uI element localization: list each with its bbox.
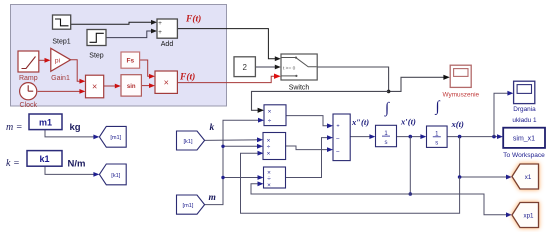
svg-text:×: × [267,151,271,158]
svg-text:x1: x1 [525,174,532,181]
svg-text:m1: m1 [39,117,52,127]
block Ramp [18,51,39,72]
block m1 constant [29,114,62,130]
block Wymuszenie scope [450,65,471,87]
wire Clock to Product1 input 2 [38,90,80,92]
svg-text:+: + [336,124,339,130]
wire Product2 F(t) to Switch input 3 [178,76,275,82]
block Clock [20,83,37,100]
block Integrator2 [427,126,448,147]
wire Product1 to sin [104,85,116,87]
svg-text:×: × [268,108,272,115]
from tag [m1] [177,195,205,214]
svg-text:Clock: Clock [20,102,38,109]
wire Add to Switch input 1 [177,29,275,59]
svg-text:[m1]: [m1] [110,135,121,141]
junction dot x' feedback [409,192,413,196]
svg-text:Step: Step [89,53,104,60]
block k1 constant [27,151,62,167]
wire From [k1] to Divide2 input 1 (k) [205,139,258,142]
from tag [k1] [177,131,205,150]
svg-text:Ramp: Ramp [19,75,38,82]
block Step [87,30,106,46]
svg-text:x′(t): x′(t) [400,116,416,126]
wire Integrator2 to sim_x1 x(t) [447,136,497,138]
svg-text:Fs: Fs [127,58,135,65]
wire junction to Wymuszenie scope [389,77,444,91]
svg-text:x(t): x(t) [451,119,465,129]
wire x feedback to Divide2 input 3 [241,153,460,213]
block Drgania scope [514,81,535,103]
block Divide2 (k x / m) [263,133,286,160]
block Constant 2 [234,57,255,77]
svg-text:To Workspace: To Workspace [503,152,545,159]
block Product2 [155,71,177,93]
svg-text:xp1: xp1 [524,213,535,220]
block Gain1 [51,48,71,71]
junction dot x for outport [458,135,462,139]
svg-text:Gain1: Gain1 [51,75,70,82]
svg-text:×: × [164,77,169,87]
svg-text:k =: k = [6,158,20,169]
svg-text:Drgania: Drgania [513,106,536,113]
svg-text:×: × [267,182,271,189]
junction dot m line upper [221,145,224,148]
wire x' feedback to Divide3 input 3 [251,184,410,194]
svg-text:t >= 0: t >= 0 [283,65,296,71]
svg-text:+: + [158,29,162,36]
svg-text:sim_x1: sim_x1 [513,136,535,143]
svg-text:−: − [336,148,340,155]
svg-text:+: + [158,20,162,27]
block sin [121,75,141,96]
junction dot x for scope [492,135,496,139]
wire k1 box to Goto [k1] [45,166,95,174]
wire Gain1 to Product1 input 1 [71,60,80,81]
svg-text:m =: m = [6,122,22,133]
wire Sum output to Integrator1 [350,136,370,138]
wire Divide1 output to Sum input 1 [286,116,328,126]
wire m branch to Divide2 input 2 [223,145,258,147]
wire Divide2 output to Sum input 3 [286,146,328,150]
junction dot F line [387,90,391,94]
svg-text:s: s [435,141,438,147]
svg-text:F(t): F(t) [179,72,195,83]
svg-text:s: s [385,140,388,146]
svg-text:2: 2 [242,63,247,72]
block Integrator1 [376,125,397,146]
outport tag x1 [512,164,539,189]
svg-text:×: × [92,82,97,92]
svg-text:∫: ∫ [384,101,391,117]
block Add [157,19,177,38]
svg-text:x″(t): x″(t) [351,117,369,127]
svg-text:[m1]: [m1] [183,203,194,209]
wire Constant 2 to Switch input 2 [256,66,275,68]
svg-text:Add: Add [161,41,174,48]
goto tag [k1] [99,164,126,185]
svg-text:∫: ∫ [434,99,441,115]
block Sum [333,114,350,161]
wire Step to Add [106,31,151,38]
svg-text:F(t): F(t) [185,14,201,25]
wire x' to xp1 outport [410,194,506,215]
block Switch [281,54,317,80]
wire x' down to feedback line [409,137,411,194]
wire Integrator1 to Integrator2 x'(t) [397,136,421,138]
outport tag xp1 [512,203,539,228]
svg-text:kg: kg [70,122,81,133]
svg-text:k1: k1 [39,154,49,164]
wire x down to x1 outport [460,137,507,177]
wire x to Drgania scope [494,93,508,136]
wire Divide3 output to Sum input 2 [286,138,328,178]
source subsystem area (lavender panel) [11,5,227,107]
svg-text:Switch: Switch [289,85,310,92]
svg-text:k: k [210,123,215,133]
block Fs constant [121,52,140,68]
wire m branch to Divide3 input 2 [223,177,258,179]
svg-text:pi: pi [55,58,61,65]
block Step1 [53,15,71,29]
block sim_x1 To Workspace [503,128,545,148]
wire From [m1] m-line vertical to Divide1 input 2 [205,120,259,204]
wire m1 box to Goto [m1] [45,130,95,137]
wire Fs to Product2 input 1 [140,60,150,76]
block Divide3 (x' / m) [264,167,286,188]
svg-text:N/m: N/m [68,158,86,169]
svg-text:sin: sin [127,84,136,90]
svg-text:układu 1: układu 1 [512,117,537,124]
block Divide1 (F/m) [264,105,286,126]
svg-text:Step1: Step1 [52,39,70,46]
wire Ramp to Gain1 [39,59,45,61]
wire sin to Product2 input 2 [142,85,150,87]
junction dot m line lower [221,176,224,179]
junction dot x' [409,135,413,139]
svg-text:m: m [209,193,216,203]
wire junction to Divide1 input 1 [252,91,389,110]
goto tag [m1] [99,126,126,147]
wire Switch output to junction [317,67,388,91]
wire Step1 to Add [71,22,152,24]
svg-text:−: − [336,135,340,142]
junction dot x1 branch [458,175,462,179]
block Product1 [86,75,104,98]
svg-text:Wymuszenie: Wymuszenie [443,91,480,98]
svg-text:÷: ÷ [268,118,272,125]
svg-text:[k1]: [k1] [111,173,120,179]
svg-text:[k1]: [k1] [183,139,192,145]
